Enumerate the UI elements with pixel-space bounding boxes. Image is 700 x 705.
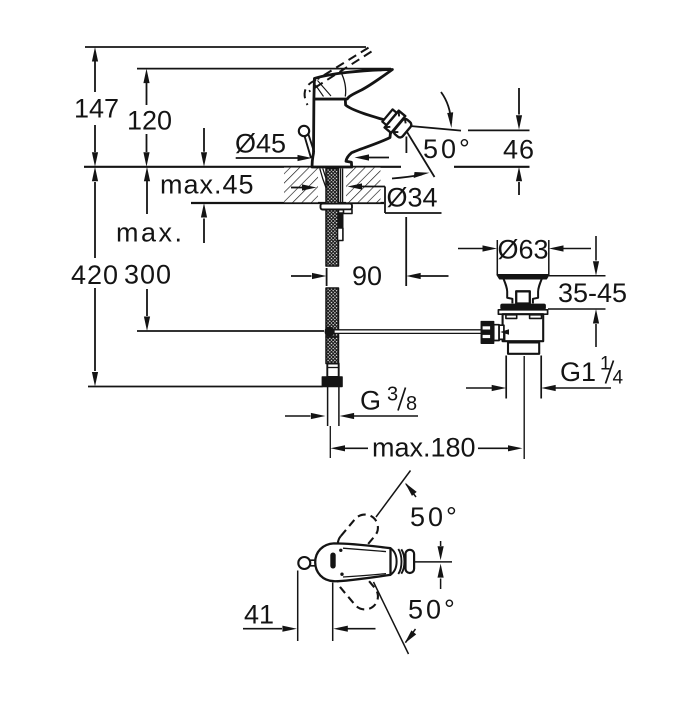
deck bottom line xyxy=(191,202,384,204)
dimension 420 xyxy=(71,167,323,387)
braided hose middle segment xyxy=(326,288,339,337)
svg-text:50°: 50° xyxy=(423,134,473,164)
dimension 90 xyxy=(291,261,449,291)
svg-text:420: 420 xyxy=(71,260,119,290)
handle inner mark xyxy=(330,549,343,576)
second hose fitting xyxy=(338,213,343,241)
aerator end-face reference line xyxy=(410,126,530,131)
hose end nut xyxy=(322,377,342,387)
handle front view solid xyxy=(315,543,414,581)
svg-text:35-45: 35-45 xyxy=(558,278,627,308)
hose tails G3/8 xyxy=(328,387,339,459)
dimension 35-45 xyxy=(548,236,627,347)
mounting deck hatched right part xyxy=(346,168,381,203)
drain washer xyxy=(498,310,547,314)
dimension Ø45 (faucet base) xyxy=(235,129,389,162)
reference line top (spout max height) xyxy=(85,46,366,48)
hose end collar xyxy=(327,364,338,378)
drain tailpipe xyxy=(506,356,541,399)
svg-text:50°: 50° xyxy=(408,595,458,625)
svg-text:8: 8 xyxy=(406,393,417,415)
hose bend lines in deck hole xyxy=(320,169,343,204)
rod knurled adjuster xyxy=(481,322,494,344)
pop-up rod knob on faucet xyxy=(299,126,314,158)
dimension 41 xyxy=(243,571,376,642)
aerator angle arc arrow xyxy=(392,172,430,179)
dimension max.180 xyxy=(331,433,523,463)
svg-text:Ø34: Ø34 xyxy=(387,183,438,213)
svg-text:G1: G1 xyxy=(560,357,596,387)
svg-text:4: 4 xyxy=(613,368,624,389)
overflow slots xyxy=(506,315,542,319)
svg-text:3: 3 xyxy=(387,384,398,406)
svg-text:Ø63: Ø63 xyxy=(498,235,549,265)
faucet body and spout xyxy=(312,99,392,167)
dimension G1 1/4 xyxy=(466,354,624,392)
braided hose lower segment xyxy=(326,337,339,364)
extension line from aerator to 90-dim xyxy=(405,137,407,287)
svg-text:G: G xyxy=(360,386,381,416)
drain seal (black) xyxy=(500,304,546,310)
svg-text:300: 300 xyxy=(124,260,172,290)
svg-text:90: 90 xyxy=(352,261,382,291)
lever raised position (dashed) xyxy=(305,48,372,105)
drain body xyxy=(503,314,544,341)
drain bell neck xyxy=(504,279,542,304)
drain centerline extension xyxy=(523,356,525,459)
shank flange nut under deck xyxy=(321,204,353,214)
svg-text:50°: 50° xyxy=(410,502,460,532)
lower 50 arrow xyxy=(402,595,458,646)
svg-text:max.45: max.45 xyxy=(160,170,255,200)
braided supply hose upper segment xyxy=(326,169,339,267)
rod pivot xyxy=(500,329,509,340)
svg-text:46: 46 xyxy=(503,135,535,165)
dimension 120 xyxy=(127,69,172,167)
dimension Ø34 (hole) arrows xyxy=(291,183,385,190)
dimension Ø63 xyxy=(458,235,591,275)
drain plug cap xyxy=(497,275,549,279)
50 degree arc (spout angle) xyxy=(423,92,473,164)
svg-text:Ø45: Ø45 xyxy=(235,129,286,159)
dimension max.300 xyxy=(116,167,324,331)
drain stem square xyxy=(516,291,530,303)
dimension 147 xyxy=(74,47,119,167)
upper 50 arrow xyxy=(403,481,460,532)
svg-text:120: 120 xyxy=(127,106,172,136)
reference line lever tip level xyxy=(137,68,391,70)
dimension G 3/8 xyxy=(285,384,418,420)
svg-text:147: 147 xyxy=(74,94,119,124)
handle raised position dashed xyxy=(332,509,383,615)
aerator axis extension line xyxy=(407,132,435,177)
handle tip reference line xyxy=(414,561,452,563)
deck top surface line xyxy=(84,166,530,168)
faucet lever (solid, lowered) xyxy=(314,70,393,100)
50 degree rays xyxy=(374,471,411,655)
label Ø34 xyxy=(385,183,442,214)
drain thread section xyxy=(508,343,539,354)
mounting deck hatched left part xyxy=(284,168,318,203)
handle pop-up knob front xyxy=(298,557,315,569)
rod tee junction xyxy=(325,327,335,337)
pop-up rod horizontal xyxy=(334,330,482,334)
svg-text:max.: max. xyxy=(116,218,185,248)
dimension 46 (aerator height) xyxy=(503,88,535,195)
svg-text:max.180: max.180 xyxy=(372,433,476,463)
rod ferrule xyxy=(494,325,504,341)
converging arrows at tip line xyxy=(438,541,444,589)
aerator (angled outlet) xyxy=(380,107,413,140)
svg-text:41: 41 xyxy=(244,600,274,630)
dimension max.45 (deck thickness) xyxy=(160,128,255,243)
